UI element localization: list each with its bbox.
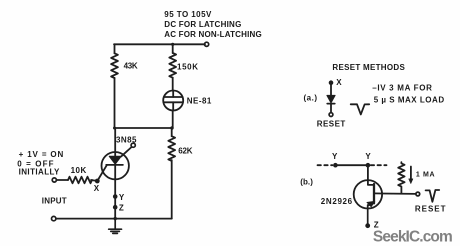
node mid rail left: [113, 127, 116, 130]
node Y left: [333, 163, 338, 168]
node Y: [113, 194, 118, 199]
svg-text:43K: 43K: [124, 61, 138, 70]
wire top supply rail: [114, 43, 205, 45]
svg-text:INPUT: INPUT: [42, 196, 67, 205]
label input conditions: [17, 150, 63, 177]
label 95 TO 105V block: [164, 10, 261, 39]
svg-text:Z: Z: [119, 203, 124, 212]
svg-text:RESET METHODS: RESET METHODS: [332, 63, 405, 72]
svg-text:3N85: 3N85: [116, 136, 137, 145]
resistor R 1MA branch: [398, 162, 404, 193]
svg-text:95 TO 105V: 95 TO 105V: [164, 10, 212, 19]
pin anode-gate lead 3N85: [121, 147, 131, 156]
neon lamp NE-81: [163, 91, 183, 111]
diode D reset: [327, 95, 335, 112]
wire 150K to NE-81: [172, 78, 174, 91]
svg-text:Y: Y: [332, 152, 338, 161]
svg-text:1 MA: 1 MA: [416, 172, 435, 179]
svg-text:5 µ S MAX LOAD: 5 µ S MAX LOAD: [374, 95, 445, 104]
reset method b: dashed wire left: [318, 164, 333, 166]
resistor R 150K: [169, 53, 176, 78]
svg-text:INITIALLY: INITIALLY: [19, 168, 60, 177]
wire 10K to X node: [91, 179, 97, 182]
node Z transistor emitter: [365, 223, 370, 228]
resistor R 43K: [111, 53, 118, 78]
svg-text:RESET: RESET: [317, 119, 346, 128]
ground symbol: [109, 219, 122, 234]
wire cathode down: [114, 165, 116, 219]
wire X to diode: [330, 83, 332, 96]
svg-text:X: X: [94, 184, 100, 193]
wire left branch lower: [114, 78, 116, 128]
waveform pulse a: [351, 104, 370, 114]
wire anode to SCS: [114, 128, 116, 157]
node mid rail right: [170, 126, 173, 129]
terminal input top: [52, 178, 56, 182]
dashed wire right: [371, 164, 387, 166]
node junction 150K branch on rail: [171, 43, 174, 46]
svg-text:NE-81: NE-81: [187, 97, 212, 106]
reset method a: node X dot: [329, 80, 334, 85]
transistor Q 2N2926: [354, 180, 416, 226]
svg-text:62K: 62K: [178, 146, 192, 155]
wire input to 10K: [56, 179, 68, 181]
node Y right: [366, 163, 371, 168]
svg-text:Y: Y: [365, 152, 371, 161]
terminal input bottom: [52, 216, 56, 220]
pin cathode-gate lead 3N85: [97, 165, 106, 181]
wire mid horizontal rail: [115, 127, 173, 129]
SCS 3N85 body: [102, 152, 129, 179]
svg-text:DC FOR LATCHING: DC FOR LATCHING: [164, 20, 241, 29]
wire 62K to bottom rail: [171, 160, 173, 219]
svg-text:Y: Y: [119, 193, 125, 202]
terminal reset a: [329, 113, 333, 117]
svg-text:RESET: RESET: [415, 204, 446, 213]
wire Y to Y: [335, 164, 368, 166]
node bottom rail junction: [114, 217, 117, 220]
svg-text:(b.): (b.): [300, 178, 313, 187]
wire 62K branch upper: [171, 128, 173, 136]
resistor R 62K: [168, 136, 175, 161]
wire NE-81 to mid rail: [172, 111, 174, 129]
wire left branch upper: [114, 44, 116, 53]
terminal anode gate: [131, 143, 135, 147]
wire right branch upper: [172, 44, 174, 53]
svg-text:AC FOR NON-LATCHING: AC FOR NON-LATCHING: [164, 30, 261, 39]
svg-text:2N2926: 2N2926: [321, 197, 353, 206]
svg-text:–IV 3 MA FOR: –IV 3 MA FOR: [372, 83, 432, 92]
resistor R 10K: [68, 177, 92, 184]
svg-text:SeekIC.com: SeekIC.com: [373, 229, 453, 246]
svg-text:+ 1V = ON: + 1V = ON: [19, 150, 64, 159]
svg-text:(a.): (a.): [304, 94, 318, 103]
waveform pulse b: [426, 190, 440, 202]
terminal reset b: [416, 192, 420, 196]
svg-text:150K: 150K: [177, 63, 198, 72]
svg-text:10K: 10K: [71, 166, 87, 175]
wire Y to transistor: [367, 165, 369, 180]
node X: [95, 179, 100, 184]
arrow current 1MA: [409, 167, 413, 184]
terminal supply input: [205, 42, 209, 46]
svg-text:X: X: [336, 78, 342, 87]
node Z: [113, 205, 118, 210]
wire bottom rail: [56, 218, 172, 220]
